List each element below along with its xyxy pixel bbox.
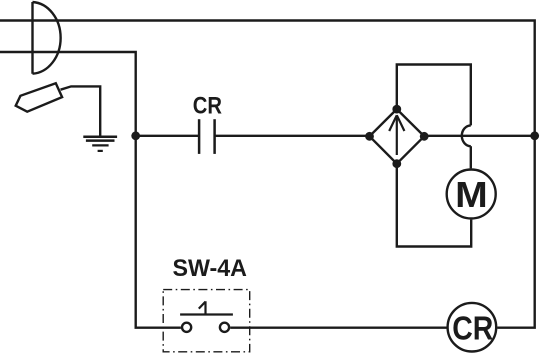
wire: pushbutton to coil CR — [230, 327, 446, 329]
wire: rectifier right to right bus — [424, 135, 535, 137]
pushbutton SW-4A — [180, 301, 233, 332]
junction: left bus / rung 1 — [131, 131, 140, 140]
junction: right bus / rung 1 — [530, 131, 539, 140]
svg-text:CR: CR — [193, 93, 222, 120]
wire: probe to ground — [61, 86, 101, 135]
motor M1 — [447, 170, 496, 219]
probe plug P2 — [16, 83, 62, 111]
rectifier D1 (diamond with arrow) — [370, 109, 425, 164]
AC plug P1 — [33, 2, 61, 74]
node: rectifier top junction — [392, 105, 401, 114]
svg-text:SW-4A: SW-4A — [172, 255, 247, 282]
node: rectifier bottom junction — [392, 159, 401, 168]
wire: rectifier bottom branch to motor bottom — [397, 164, 471, 247]
wire: rectifier top branch to motor — [397, 65, 471, 126]
relay coil CR — [448, 303, 497, 352]
node: rectifier left junction — [365, 132, 374, 141]
wire: left bus to contact CR — [136, 135, 199, 137]
crossover hop (no connection) — [462, 125, 471, 146]
svg-text:M: M — [455, 174, 488, 215]
svg-text:CR: CR — [452, 309, 493, 347]
ground GND — [83, 137, 117, 151]
wire: contact to rectifier — [215, 135, 370, 137]
relay contact CR — [199, 119, 215, 154]
wire L2: neutral prong to left bus down to bottom rung — [0, 52, 181, 328]
wire: hop to motor top — [470, 146, 472, 168]
node: rectifier right junction — [420, 132, 429, 141]
switch enclosure (dash-dot boundary) — [163, 290, 250, 352]
